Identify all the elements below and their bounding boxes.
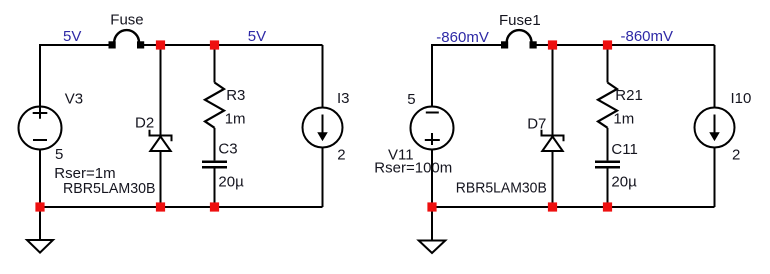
fuse Fuse1 right tab [531, 42, 536, 47]
junction bottom D7 node [548, 202, 557, 211]
svg-text:Fuse: Fuse [110, 11, 143, 28]
wire I3 bottom lead [322, 148, 324, 208]
wire D2 bottom lead [160, 151, 162, 207]
junction top D2 node [156, 40, 165, 49]
svg-text:1m: 1m [613, 111, 634, 128]
wire fuse1 to I10 corner (top) [533, 44, 715, 46]
svg-text:I10: I10 [731, 90, 752, 107]
junction bottom C11 node [603, 202, 612, 211]
svg-text:1m: 1m [225, 111, 246, 128]
wire D7 bottom lead [552, 151, 554, 207]
wire V11-top to fuse1 [432, 45, 504, 107]
ground (left) [27, 240, 53, 253]
wire bottom rail (right circuit) [432, 206, 715, 208]
junction bottom C3 node [210, 202, 219, 211]
I10 arrow shaft [714, 115, 716, 135]
wire I3 top lead [322, 45, 324, 108]
diode D2 triangle [150, 137, 170, 152]
V11 plus sign (bottom) [425, 133, 440, 145]
resistor R21 zigzag [598, 83, 617, 128]
wire C3 bottom lead [214, 168, 216, 207]
wire V3-top to fuse [40, 45, 111, 107]
V3 plus sign [33, 108, 48, 119]
diode D2 zener bar [150, 130, 172, 141]
junction top R21 node [603, 40, 612, 49]
svg-text:Fuse1: Fuse1 [499, 12, 541, 29]
svg-text:Rser=100m: Rser=100m [374, 159, 452, 176]
junction top R3 node [210, 40, 219, 49]
svg-text:RBR5LAM30B: RBR5LAM30B [456, 180, 547, 197]
svg-text:D2: D2 [135, 114, 154, 131]
I3 arrow shaft [322, 115, 324, 135]
wire D7 top lead [552, 45, 554, 136]
svg-text:2: 2 [732, 147, 740, 164]
svg-text:-860mV: -860mV [621, 28, 674, 45]
wire D2 top lead [160, 45, 162, 136]
wire V11 bottom lead [431, 150, 433, 208]
voltage source V3 [19, 107, 62, 150]
svg-text:C3: C3 [218, 141, 237, 158]
wire gnd stem (right) [431, 207, 433, 241]
junction bottom gnd node (left) [35, 202, 44, 211]
capacitor C11 top plate [595, 160, 620, 163]
junction bottom D2 node [156, 202, 165, 211]
wire R3 top lead [214, 45, 216, 83]
capacitor C3 bottom plate [202, 166, 227, 169]
fuse Fuse1 left tab [502, 42, 507, 47]
diode D7 triangle [542, 137, 562, 152]
svg-text:2: 2 [337, 147, 345, 164]
svg-text:D7: D7 [527, 115, 546, 132]
wire R21 top lead [607, 45, 609, 83]
wire gnd stem (left) [39, 207, 41, 240]
svg-text:C11: C11 [611, 141, 637, 158]
svg-text:R3: R3 [226, 87, 245, 104]
fuse Fuse right tab [138, 42, 143, 47]
wire C11 bottom lead [607, 168, 609, 207]
wire V3 bottom lead [39, 150, 41, 208]
svg-text:5V: 5V [248, 28, 266, 45]
svg-text:I3: I3 [337, 90, 350, 107]
svg-text:20µ: 20µ [218, 173, 244, 190]
wire bottom rail (left circuit) [40, 206, 323, 208]
svg-text:5V: 5V [63, 28, 81, 45]
I10 arrow head [711, 133, 718, 139]
svg-text:5: 5 [55, 146, 63, 163]
fuse Fuse left tab [110, 42, 115, 47]
wire I10 top lead [714, 45, 716, 108]
wire fuse to I3 corner (top) [141, 44, 323, 46]
V3 minus sign [33, 139, 47, 141]
current source I10 [695, 108, 735, 148]
ground (right) [419, 241, 446, 254]
wire I10 bottom lead [714, 148, 716, 208]
fuse Fuse1 arc [507, 30, 532, 42]
svg-text:V3: V3 [65, 90, 83, 107]
I3 arrow head [319, 133, 326, 139]
svg-text:R21: R21 [615, 87, 643, 104]
junction top D7 node [548, 40, 557, 49]
wire R21 to C11 [607, 128, 609, 161]
wire R3 to C3 [214, 128, 216, 161]
svg-text:20µ: 20µ [611, 173, 637, 190]
fuse Fuse arc [114, 30, 139, 42]
svg-text:-860mV: -860mV [436, 29, 489, 46]
junction bottom gnd node (right) [427, 202, 436, 211]
resistor R3 zigzag [205, 83, 224, 128]
capacitor C11 bottom plate [595, 166, 620, 169]
capacitor C3 top plate [202, 160, 227, 163]
svg-text:5: 5 [407, 91, 415, 108]
voltage source V11 [411, 107, 454, 150]
V11 minus sign (top) [426, 112, 439, 114]
svg-text:RBR5LAM30B: RBR5LAM30B [63, 180, 156, 197]
current source I3 [303, 108, 343, 148]
diode D7 zener bar [542, 130, 564, 141]
